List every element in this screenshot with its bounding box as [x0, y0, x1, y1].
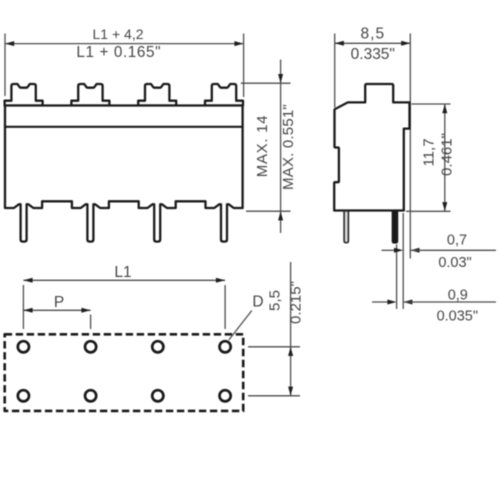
housing body outline with pins [5, 106, 243, 242]
clamp castle 2 [71, 84, 109, 106]
11,7 top ext line [412, 103, 451, 105]
11,7 bottom arrow [442, 202, 447, 211]
svg-text:L1 + 4,2: L1 + 4,2 [93, 26, 144, 42]
svg-text:0,9: 0,9 [448, 288, 468, 304]
svg-text:0.215": 0.215" [288, 281, 305, 324]
svg-text:5,5: 5,5 [267, 290, 284, 311]
svg-text:MAX. 0.551": MAX. 0.551" [280, 104, 297, 190]
5,5 dim line [290, 262, 292, 396]
side right pin (solid) [392, 211, 397, 243]
svg-text:0.461": 0.461" [439, 133, 456, 176]
svg-text:8,5: 8,5 [361, 25, 386, 42]
inner horizontal line [5, 126, 243, 128]
ext line right of 8,5 (long, down to 0,7 dim) [409, 34, 411, 259]
11,7 top arrow [442, 104, 447, 113]
svg-text:MAX. 14: MAX. 14 [254, 115, 271, 177]
5,5 bottom arrow [288, 387, 293, 396]
pad row2 col1 [18, 390, 29, 401]
dashed outline rectangle [5, 334, 244, 411]
pad row1 col4 [220, 341, 231, 352]
P arrow left [23, 308, 32, 313]
extension line right [243, 34, 245, 98]
MAX.14 bottom ext line [246, 210, 291, 212]
0,9 dim line right seg [404, 301, 496, 303]
side body outline [334, 84, 409, 211]
11,7 dim line [444, 104, 446, 211]
P dim line [23, 309, 90, 311]
clamp castle 4 [205, 84, 243, 106]
arrow right [401, 41, 410, 46]
11,7 bottom ext line [406, 210, 451, 212]
MAX.14 top arrow [278, 74, 283, 83]
5,5 top ext line [248, 346, 300, 348]
pad row1 col1 [18, 341, 29, 352]
P arrow right [81, 308, 90, 313]
arrow left [335, 41, 344, 46]
svg-text:0.035": 0.035" [437, 309, 478, 325]
pad row2 col4 [220, 390, 231, 401]
svg-text:L1: L1 [114, 264, 131, 281]
ext line left of 8,5 [334, 34, 336, 108]
0,7 dim line right seg [411, 249, 496, 251]
pad row1 col2 [85, 341, 96, 352]
pad row2 col3 [152, 390, 163, 401]
svg-text:0,7: 0,7 [447, 232, 467, 248]
pad row2 col2 [85, 390, 96, 401]
dim line L1+4,2 [5, 43, 244, 45]
dim line 8,5 [335, 42, 411, 44]
svg-text:11,7: 11,7 [421, 138, 438, 166]
L1 arrow left [23, 278, 32, 283]
svg-text:P: P [54, 294, 64, 311]
side left pin (outlined) [344, 211, 348, 243]
svg-text:D: D [252, 294, 263, 311]
0,7 left arrow [394, 248, 403, 253]
ext line pad1 [22, 285, 24, 329]
svg-text:0.03": 0.03" [438, 255, 471, 271]
svg-text:L1 + 0.165": L1 + 0.165" [76, 44, 161, 61]
0,7 ext line A [396, 245, 398, 310]
0,7 ext line B [402, 213, 404, 309]
ext line pad2 [90, 315, 92, 330]
svg-text:0.335": 0.335" [351, 46, 395, 63]
leader line from D to pad [229, 311, 252, 341]
5,5 top arrow [288, 347, 293, 356]
MAX.14 bottom arrow [278, 211, 283, 220]
0,9 dim line left seg [372, 301, 390, 303]
0,7 dim line left seg [382, 249, 397, 251]
L1 dim line [23, 279, 225, 281]
clamp castle 1 [5, 84, 43, 106]
clamp castle 3 [138, 84, 176, 106]
MAX.14 top ext line [241, 82, 291, 84]
5,5 bottom ext line [248, 395, 300, 397]
pad row1 col3 [152, 341, 163, 352]
arrow left [5, 41, 14, 46]
L1 arrow right [216, 278, 225, 283]
arrow right [234, 41, 243, 46]
0,9 left arrow [387, 300, 396, 305]
ext line pad4 [224, 285, 226, 329]
MAX.14 dim vertical line [280, 60, 282, 234]
extension line left [4, 34, 6, 97]
0,9 right arrow [403, 300, 412, 305]
0,7 right arrow [410, 248, 419, 253]
